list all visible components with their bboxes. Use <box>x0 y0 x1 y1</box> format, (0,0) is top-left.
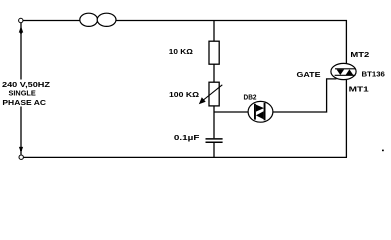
svg-text:GATE: GATE <box>297 70 321 79</box>
svg-text:100 KΩ: 100 KΩ <box>169 90 199 99</box>
svg-text:SINGLE: SINGLE <box>9 88 36 97</box>
svg-text:0.1µF: 0.1µF <box>174 133 200 142</box>
svg-text:10 KΩ: 10 KΩ <box>169 47 193 56</box>
svg-text:DB2: DB2 <box>244 93 257 102</box>
svg-text:PHASE AC: PHASE AC <box>2 98 46 107</box>
svg-text:MT1: MT1 <box>349 84 369 93</box>
svg-text:MT2: MT2 <box>350 50 369 59</box>
svg-text:BT136: BT136 <box>362 69 385 78</box>
